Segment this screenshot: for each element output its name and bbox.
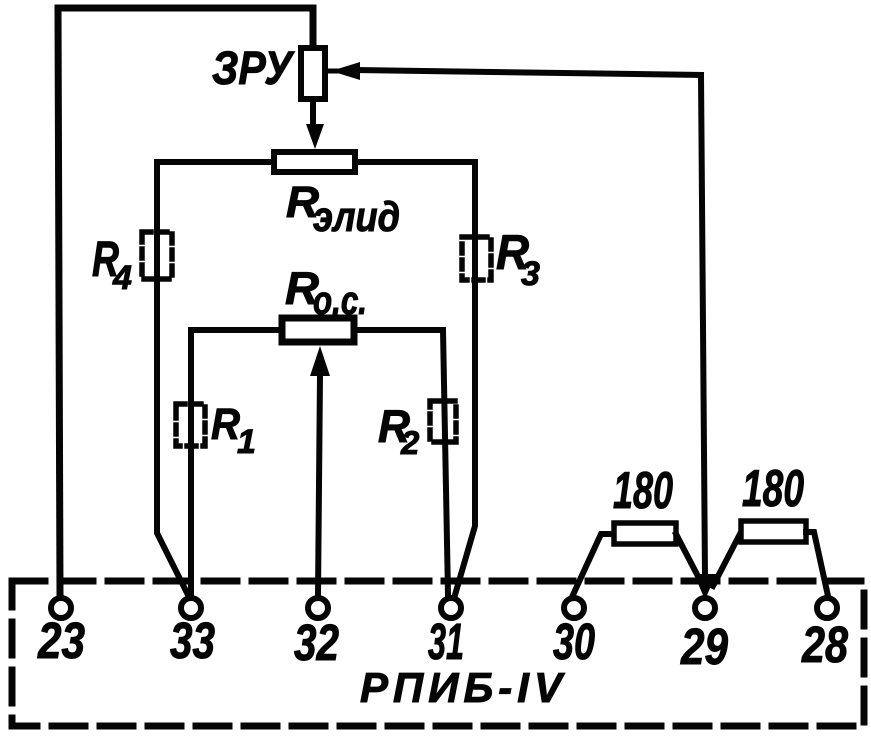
svg-text:28: 28 [801,616,848,673]
resistor R3 (dashed body) [462,237,491,280]
label РПИБ-IV [360,664,565,711]
label 32 [294,614,339,671]
label Rэлид [286,178,400,240]
resistor 180 (right, terminals 29-28) [713,521,828,596]
label 180 (left) [613,462,673,520]
terminal 31 [441,598,461,618]
svg-text:1: 1 [237,423,256,461]
potentiometer Rо.с. (body) [282,318,354,342]
label 180 (right) [742,460,804,518]
svg-text:4: 4 [112,259,132,297]
potentiometer ЗРУ (body) [301,48,325,99]
resistor R1 (dashed body) [176,404,205,446]
arrowhead: Rо.с. wiper (points up) [310,346,330,376]
terminal 28 [817,598,837,618]
label R4 [92,231,132,297]
enclosure РПИБ-IV (dashed box) [12,581,864,726]
resistor R2 (dashed body) [430,401,456,442]
wire: Rэлид left lead down through R4 to terminal 33 [157,162,274,595]
label R3 [496,226,540,293]
svg-text:180: 180 [613,462,673,520]
svg-text:180: 180 [742,460,804,518]
terminal 33 [181,598,201,618]
wire: ЗРУ wiper feed line from terminal 29 riser [356,70,701,75]
terminal 32 [308,598,328,618]
svg-text:ЗРУ: ЗРУ [212,41,295,94]
svg-text:R: R [211,400,240,449]
svg-text:о.с.: о.с. [313,279,367,323]
svg-text:РПИБ-IV: РПИБ-IV [360,664,565,711]
label 28 [801,616,848,673]
label 30 [553,613,595,670]
label 33 [170,612,215,669]
wire: top bus from terminal-23 riser to ЗРУ top [58,8,313,48]
arrowhead: ЗРУ wiper (points left into body) [326,62,360,80]
label 31 [428,613,464,670]
label ЗРУ [212,41,295,94]
wire: Rэлид right lead down through R3 to terminal 31 [355,162,475,595]
svg-text:2: 2 [400,424,420,461]
svg-text:30: 30 [553,613,595,670]
wire: Rо.с. wiper riser from terminal 32 [318,375,320,595]
wire: left riser from terminal 23 up to top bus [58,8,60,596]
svg-text:29: 29 [680,618,728,675]
resistor R4 (dashed body) [142,232,172,279]
svg-text:элид: элид [313,193,400,240]
potentiometer Rэлид (body) [274,152,355,172]
svg-text:23: 23 [37,612,85,669]
wire: Rо.с. right lead down through R2 to terminal 31 [354,330,448,595]
wire: Rо.с. left lead down through R1 to terminal 33 [191,330,282,595]
label Rо.с. [285,262,367,323]
arrowhead: into terminal 29 (points down) [694,574,716,600]
terminal 29 [695,598,715,618]
terminal 23 [51,598,71,618]
wire: right riser down to terminal 29 [701,75,705,578]
label R1 [211,400,256,461]
resistor 180 (left, terminals 30-29) [572,523,703,597]
label R2 [378,400,420,461]
svg-text:31: 31 [428,613,464,670]
label 29 [680,618,728,675]
svg-text:32: 32 [294,614,339,671]
wire: ЗРУ bottom lead [310,99,316,130]
label 23 [37,612,85,669]
svg-text:3: 3 [521,255,540,293]
svg-text:33: 33 [170,612,215,669]
terminal 30 [564,598,584,618]
arrowhead: ЗРУ output onto Rэлид wiper (points down) [306,124,324,149]
